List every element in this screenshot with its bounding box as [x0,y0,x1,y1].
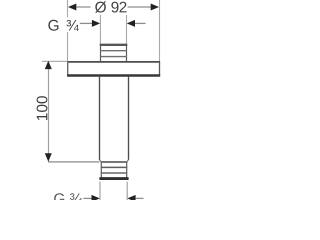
ceiling flange top edge [67,61,160,63]
arrowhead right-pointing (top G3/4) [92,20,100,27]
pipe left wall [99,77,101,160]
top nipple thread line 1 [100,50,127,52]
dimension text "Ø 92" [95,1,126,12]
chamfer right at bottom thread start [127,160,129,162]
extension line bottom for 100 dimension [48,161,99,163]
top threaded nipple right wall [126,44,128,61]
leader line right-pointing arrow (top G3/4) [80,22,93,24]
extension line left for diameter 92 dimension [67,0,69,61]
white halo behind top fraction text [65,17,79,32]
dimension text "100" (rotated) [37,96,48,120]
leader line right-pointing arrow tail (bottom G3/4) [83,197,92,199]
leader line left-pointing arrow tail (bottom G3/4) [136,197,144,199]
arrowhead left of diameter 92 [68,4,76,11]
ceiling flange bottom edge (thick) [67,74,160,77]
extension line top for 100 dimension [42,60,68,62]
leader line left-pointing arrow tail (top G3/4) [135,22,146,24]
thread label text "G ¾" top [48,20,58,31]
ceiling flange left wall [67,62,69,75]
extension line right of top thread [126,15,128,44]
ceiling flange right wall [159,62,161,75]
bottom thread line 1 [101,166,127,168]
extension line right for diameter 92 dimension [159,0,161,61]
extension line left below pipe end [99,182,101,200]
extension line right below pipe end [126,182,128,200]
arrowhead left-pointing (bottom G3/4) [127,195,135,202]
extension line left of top thread [99,15,101,44]
arrowhead right of diameter 92 [151,4,159,11]
arrowhead up of 100 dimension [45,61,52,69]
pipe bottom end rim (thick) [99,177,128,180]
dimension line 100 vertical [48,62,50,162]
bottom thread right wall [126,162,128,177]
top threaded nipple top edge (thick) [100,44,128,46]
dimension line diameter 92 right segment [128,6,151,8]
bottom thread line 2 [101,172,127,174]
chamfer left at bottom thread start [100,160,102,162]
pipe right wall [128,77,130,160]
top threaded nipple left wall [100,44,102,61]
thread label text "G ¾" bottom [54,193,64,204]
bottom thread top edge [101,161,128,163]
dimension line diameter 92 left segment [76,6,91,8]
bottom thread left wall [100,162,102,177]
arrowhead down of 100 dimension [45,153,52,161]
top nipple thread line 2 [100,56,127,58]
arrowhead left-pointing (top G3/4) [127,20,135,27]
arrowhead right-pointing (bottom G3/4) [92,195,100,202]
